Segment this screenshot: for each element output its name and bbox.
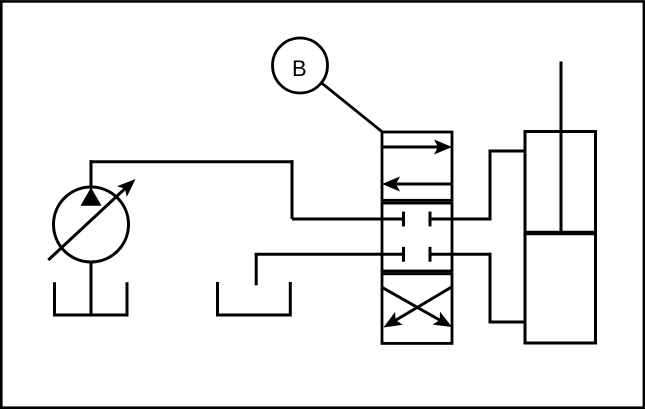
valve V1 cross arrow A line	[382, 287, 445, 323]
valve V1 blocked port upper-right bar	[429, 212, 432, 227]
wire pump suction down	[90, 262, 93, 315]
pump P1 circle	[54, 187, 129, 262]
wire A line to cylinder cap end	[490, 150, 525, 153]
valve V1 top box arrow left head	[382, 177, 400, 192]
valve V1 envelope bottom box	[382, 274, 452, 344]
wire pressure line down	[291, 160, 294, 219]
wire pressure line top horizontal	[90, 160, 294, 163]
tank T1 (under pump)	[55, 282, 128, 315]
valve V1 blocked port upper-right stub	[430, 218, 452, 221]
pump P1 flow triangle	[81, 188, 102, 206]
wire return drop into tank T2	[255, 253, 258, 285]
valve V1 cross arrow B head	[384, 312, 403, 328]
cylinder CYL1 barrel	[525, 132, 596, 344]
wire valve B port right	[452, 253, 492, 256]
cylinder CYL1 piston	[525, 231, 596, 235]
wire B line down	[489, 253, 492, 324]
valve V1 top box arrow right head	[434, 140, 452, 155]
valve V1 cross arrow A head	[433, 312, 452, 327]
valve V1 blocked port upper-left bar	[402, 212, 405, 227]
wire pump outlet up	[90, 160, 93, 188]
wire B line to cylinder rod end	[490, 321, 525, 324]
valve V1 envelope middle box	[382, 203, 452, 271]
valve V1 envelope top box	[382, 132, 452, 200]
valve V1 blocked port lower-left bar	[402, 247, 405, 262]
tank T2 (return)	[218, 282, 291, 315]
wire A line up	[489, 150, 492, 221]
pump P1 variable-displacement arrow line	[48, 184, 130, 260]
valve V1 top box arrow left line	[394, 183, 452, 186]
valve V1 top box arrow right line	[382, 146, 440, 149]
wire valve A port right	[452, 218, 492, 221]
balloon B circle	[273, 38, 328, 93]
balloon B leader line	[321, 83, 383, 133]
valve V1 blocked port lower-right stub	[430, 253, 452, 256]
svg-text:B: B	[292, 56, 307, 81]
valve V1 cross arrow B line	[391, 287, 453, 324]
pump P1 variable-displacement arrowhead	[117, 179, 136, 197]
wire pressure line to valve P port	[292, 218, 404, 221]
cylinder CYL1 rod	[560, 62, 563, 234]
valve V1 blocked port lower-right bar	[429, 247, 432, 262]
wire return line to valve T port	[255, 253, 404, 256]
